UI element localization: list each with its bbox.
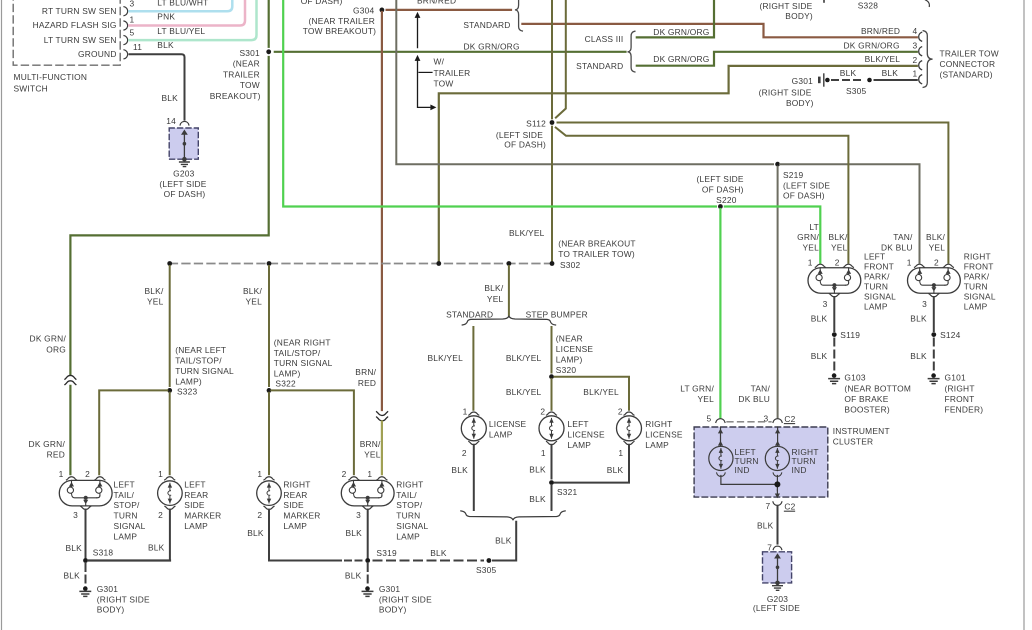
right rear side marker lamp body [257,481,282,506]
svg-text:PARK/: PARK/ [964,271,990,281]
right tail lamp pin 1 number [367,469,372,479]
svg-text:GROUND: GROUND [78,49,117,59]
label BRN/ YEL [360,439,381,460]
svg-text:S323: S323 [177,386,198,396]
svg-text:(STANDARD): (STANDARD) [940,70,993,80]
svg-text:TURN SIGNAL: TURN SIGNAL [274,358,333,368]
svg-text:LAMP: LAMP [114,531,138,541]
svg-text:RED: RED [47,449,65,459]
license lamp pin 2 cavity [462,442,479,459]
svg-text:G301: G301 [792,76,813,86]
svg-text:BODY): BODY) [97,604,125,614]
svg-text:BLK/YEL: BLK/YEL [427,353,463,363]
svg-text:S302: S302 [560,260,581,270]
left front park/turn signal lamp body [808,268,861,294]
svg-text:(NEAR RIGHT: (NEAR RIGHT [274,337,331,347]
right front lamp pin 3 cavity [922,294,939,310]
svg-text:LT BLU/WHT: LT BLU/WHT [157,0,208,7]
svg-text:BREAKOUT): BREAKOUT) [210,91,261,101]
svg-text:FRONT: FRONT [864,261,894,271]
svg-text:BLK: BLK [157,40,174,50]
svg-text:BRN/: BRN/ [355,367,376,377]
splice S124 [931,330,960,340]
right tail/stop/turn signal lamp pin 2 number [342,469,347,479]
label BLK/ YEL (right front pin 2) [926,232,945,252]
svg-text:TOW: TOW [434,79,454,89]
svg-text:BLK/: BLK/ [484,283,503,293]
W/ TRAILER TOW note arrow up to BRN/RED [415,12,421,48]
wire BLK/YEL step bumper branch down to S320 [551,327,553,373]
wire BLK/YEL from S323 left and down to left tail lamp pin 2 [99,390,167,474]
break symbol on BRN wire (RED above / YEL below) [377,412,388,421]
wire label BRN/RED (top, cut) [417,0,456,6]
svg-text:CONNECTOR: CONNECTOR [940,59,996,69]
svg-text:DK GRN/ORG: DK GRN/ORG [464,41,520,51]
svg-text:1: 1 [913,68,918,78]
svg-text:INSTRUMENT: INSTRUMENT [833,426,890,436]
multi-function switch (component box, top cut off) [13,0,120,65]
svg-text:TOW BREAKOUT): TOW BREAKOUT) [303,26,376,36]
left license lamp body [539,416,564,441]
label LICENSE LAMP [489,419,527,439]
label RIGHT TAIL/ STOP/ TURN SIGNAL LAMP [396,479,428,541]
wire DK GRN/ORG vertical from top through S301 down then left [70,0,268,374]
svg-text:DK GRN/ORG: DK GRN/ORG [844,41,900,51]
svg-text:DK GRN/: DK GRN/ [30,334,67,344]
svg-text:BLK: BLK [148,543,165,553]
svg-text:BOOSTER): BOOSTER) [844,405,890,415]
label C2 (bottom) underlined [784,501,795,511]
svg-text:W/: W/ [434,57,445,67]
instrument cluster box [694,427,828,497]
svg-text:FRONT: FRONT [945,394,975,404]
svg-text:S124: S124 [940,330,961,340]
wire BLK dashed from S318 down to ground [64,564,86,584]
frame left border [1,0,3,630]
pin number 3 [130,0,135,8]
svg-text:S112: S112 [526,119,546,129]
left license lamp pin 2 number and cavity [540,406,556,416]
wire label BLK (to pin 1) [882,68,899,78]
label HAZARD FLASH SIG [33,20,117,30]
W/ TRAILER TOW note arrow up to DK GRN/ORG and elbow to BLK/YEL [415,55,437,110]
svg-text:STOP/: STOP/ [114,500,141,510]
wire BLK from left marker pin 2 to S318 run [169,510,171,560]
splice dot on dashed line at S323 branch [167,261,172,266]
svg-text:YEL: YEL [246,297,263,307]
label (LEFT SIDE OF DASH) S220 [697,174,744,205]
left license lamp pin 1 cavity [541,442,557,459]
wire BRN/RED from brace to trailer tow pin 4 [522,24,916,37]
svg-text:SIGNAL: SIGNAL [396,521,428,531]
wire BLK/YEL from dashed line down to options brace [508,266,510,315]
svg-text:BLK: BLK [430,548,447,558]
svg-text:MARKER: MARKER [283,511,320,521]
svg-text:LEFT: LEFT [184,479,205,489]
svg-text:1: 1 [367,469,372,479]
wire label DK GRN/ORG (mid) [464,41,520,51]
svg-text:TURN: TURN [114,511,138,521]
label S328 [858,1,879,11]
svg-text:2: 2 [342,469,347,479]
svg-text:BLK: BLK [162,93,179,103]
wire BLK/YEL from dashed line down to S323 [169,266,171,386]
svg-text:BLK/YEL: BLK/YEL [506,353,542,363]
label BLK/YEL (standard branch) [427,353,463,363]
label BLK/YEL (right license) [583,387,619,397]
svg-text:BLK/: BLK/ [144,286,163,296]
frame right border [1023,0,1025,630]
multi-function switch pin cavity pin 3 [124,7,128,16]
svg-text:STEP BUMPER: STEP BUMPER [526,310,588,320]
svg-text:TOW: TOW [240,80,260,90]
right license lamp body [617,416,642,441]
cluster pin 5 number and cavity [707,414,725,424]
svg-text:BLK: BLK [811,313,828,323]
right rear side marker pin 1 cavity [264,477,274,480]
svg-text:DK BLU: DK BLU [738,394,770,404]
wire label BLK (vertical to G203) [162,93,179,103]
variant merge brace BRN/RED standard [515,0,523,31]
pin number 1 [130,15,135,25]
right rear side marker lamp pin 1 number [257,469,262,479]
svg-text:RIGHT: RIGHT [396,479,423,489]
svg-text:(RIGHT SIDE: (RIGHT SIDE [759,87,812,97]
svg-text:TURN: TURN [964,281,988,291]
ground G203 bottom internal arrow [774,553,781,585]
ground G103 symbol [829,373,839,383]
svg-text:2: 2 [85,469,90,479]
left turn ind bulb [709,446,733,470]
svg-text:STANDARD: STANDARD [576,61,623,71]
svg-text:2: 2 [462,448,467,458]
wire BLK from S305 to trailer tow pin 1 [875,79,917,81]
svg-text:2: 2 [618,406,623,416]
cut wire stub at top edge near S328 [823,0,825,2]
label RT TURN SW SEN [42,6,117,16]
label DK GRN/ ORG (left vertical) [30,334,67,355]
svg-text:S321: S321 [557,487,578,497]
wire BLK/YEL from dashed line down to S322 [268,266,270,386]
svg-text:OF DASH): OF DASH) [164,189,206,199]
svg-text:7: 7 [767,542,772,552]
wire DK GRN/ORG standard branch to trailer tow pin 3 [637,52,917,66]
wire BLK from right front pin 3 to S124 [910,297,934,331]
partial brace cut at top right [926,0,930,6]
label INSTRUMENT CLUSTER [833,426,890,446]
label S112 (LEFT SIDE OF DASH) [496,119,546,150]
svg-text:OF DASH): OF DASH) [504,140,546,150]
label S219 (LEFT SIDE OF DASH) [783,170,830,200]
svg-text:OF BRAKE: OF BRAKE [844,394,888,404]
wire DK GRN/ORG horizontal from S301 to variant brace [275,51,626,53]
svg-text:BLK: BLK [247,528,264,538]
cluster internal bus wire [721,476,778,491]
svg-text:(LEFT SIDE: (LEFT SIDE [753,603,800,613]
wire BLK/YEL from S112 diagonal to left front lamp pin 2 [556,128,849,263]
svg-text:GRN/: GRN/ [797,232,819,242]
wire BLK/YEL from S320 down to left license lamp pin 2 [551,379,553,410]
label CLASS III [585,34,624,44]
svg-text:BLK: BLK [64,570,81,580]
svg-text:BLK: BLK [811,351,828,361]
left turn ind feed wire with arrows [718,427,723,446]
wire TAN/DK BLU from S219 right to right front lamp pin 1 [780,164,920,263]
svg-text:RIGHT: RIGHT [645,419,672,429]
svg-text:LEFT: LEFT [114,479,135,489]
svg-text:CLASS III: CLASS III [585,34,624,44]
svg-text:TURN SIGNAL: TURN SIGNAL [175,366,234,376]
wire BLK dash-dot into S319 [345,560,362,562]
label (NEAR RIGHT TAIL/STOP/ TURN SIGNAL LAMP) S322 [274,337,333,388]
label (RIGHT SIDE BODY) upper [760,1,813,21]
right license lamp pin 1 cavity [618,442,634,459]
left tail lamp pin 2 number [85,469,90,479]
svg-text:RT TURN SW SEN: RT TURN SW SEN [42,6,117,16]
wire LT BLU/WHT from pin 3 [130,0,233,11]
svg-text:G301: G301 [379,584,400,594]
svg-text:OF DASH): OF DASH) [702,184,744,194]
svg-text:YEL: YEL [147,297,164,307]
left tail lamp pin 1 cavity [67,477,77,480]
svg-text:FRONT: FRONT [964,261,994,271]
wire LT GRN/YEL from top down and right to S220 [283,0,716,207]
options split brace STANDARD / STEP BUMPER [462,316,555,325]
svg-text:5: 5 [707,414,712,424]
svg-text:1: 1 [907,258,912,268]
svg-text:(RIGHT SIDE: (RIGHT SIDE [760,1,813,11]
wire label LT BLU/YEL [157,26,205,36]
dashed breakout wire to trailer tow S302 [170,263,552,265]
svg-text:1: 1 [59,469,64,479]
left rear side marker pin 1 cavity [165,477,175,480]
svg-text:BLK/: BLK/ [243,286,262,296]
break symbol on DK GRN wire (ORG above / RED below) [65,375,76,384]
svg-text:LEFT: LEFT [567,419,588,429]
wire BLK from S305 up to license brace [493,522,516,561]
svg-text:S219: S219 [783,170,804,180]
label G203 (LEFT SIDE OF DASH) [159,168,206,199]
wire BLK from right marker pin 2 down and right toward S319 [247,510,341,561]
svg-text:S301: S301 [239,48,260,58]
svg-text:BLK: BLK [529,494,546,504]
label TAN/ DK BLU (cluster pin 3) [738,384,770,404]
right tail lamp pin 2 cavity [349,477,359,480]
svg-text:1: 1 [808,258,813,268]
wire label BRN/RED (right) [861,26,900,36]
label TAN/ DK BLU (right front pin 1) [881,232,913,252]
wire BLK/YEL from S320 right then down to right license lamp pin 2 [555,377,630,410]
variant split brace CLASS III / STANDARD [628,31,635,72]
label G103 (NEAR BOTTOM OF BRAKE BOOSTER) [844,372,911,414]
svg-text:LAMP: LAMP [567,440,591,450]
svg-text:SIGNAL: SIGNAL [964,291,996,301]
label BRN/ RED (lower) [355,367,376,388]
label GROUND [78,49,117,59]
splice S323 [167,388,172,393]
svg-text:2: 2 [913,55,918,65]
svg-text:LAMP): LAMP) [274,369,301,379]
svg-text:BLK/YEL: BLK/YEL [865,54,901,64]
label G301 (RIGHT SIDE BODY) right [379,584,432,614]
wire label LT BLU/WHT [157,0,208,7]
label (NEAR LICENSE LAMP) S320 [556,334,594,375]
splice S321 [549,480,577,497]
right tail lamp pin 1 cavity [377,477,387,480]
svg-text:PARK/: PARK/ [864,271,890,281]
svg-text:BLK: BLK [840,68,857,78]
left tail/stop/turn signal lamp pin 1 number [59,469,64,479]
label BLK/ YEL (left front pin 2) [828,232,847,252]
wire label DK GRN/ORG (to pin 3) [844,41,900,51]
svg-text:BLK: BLK [451,465,468,475]
wire BLK/YEL from S323 down to left rear marker pin 1 [169,393,171,474]
svg-text:BLK: BLK [910,313,927,323]
label S301 (NEAR TRAILER TOW BREAKOUT) [210,48,261,101]
svg-text:TRAILER TOW: TRAILER TOW [940,49,999,59]
svg-text:DK GRN/ORG: DK GRN/ORG [653,27,709,37]
label LEFT REAR SIDE MARKER LAMP [184,479,221,531]
svg-text:BODY): BODY) [786,98,814,108]
svg-text:S305: S305 [476,565,497,575]
svg-text:G101: G101 [945,372,966,382]
svg-text:RED: RED [358,378,376,388]
label C2 (top) underlined [784,414,795,424]
svg-text:LT: LT [809,222,819,232]
label BLK/YEL above S302 [509,228,545,238]
right front park/turn signal lamp pin 1 number and cavity [907,258,925,268]
svg-text:G304: G304 [353,5,374,15]
label G304 (NEAR TRAILER TOW BREAKOUT) [303,5,376,35]
svg-text:TAIL/STOP/: TAIL/STOP/ [175,356,222,366]
label TRAILER TOW CONNECTOR (STANDARD) [940,49,999,80]
wire label BLK/YEL (to pin 2) [865,54,901,64]
W/ TRAILER TOW label with tick [419,57,470,89]
ground G301 (right side body) left symbol [80,586,90,596]
svg-text:S328: S328 [858,1,879,11]
svg-text:5: 5 [130,28,135,38]
right turn ind bulb [765,446,789,470]
label G203 (LEFT SIDE bottom [753,594,800,613]
splice S219 [775,162,780,167]
svg-text:YEL: YEL [929,242,946,252]
svg-text:S319: S319 [376,548,397,558]
svg-text:SWITCH: SWITCH [14,83,48,93]
cluster bus junction dot [774,481,780,487]
svg-text:LAMP: LAMP [283,521,307,531]
svg-text:LAMP): LAMP) [556,354,583,364]
svg-text:3: 3 [913,41,918,51]
wire LT BLU/YEL from pin 5 [130,0,257,40]
svg-text:7: 7 [766,501,771,511]
svg-text:YEL: YEL [487,294,504,304]
label RIGHT FRONT PARK/ TURN SIGNAL LAMP [964,251,996,311]
svg-text:TRAILER: TRAILER [223,69,260,79]
splice S305 (top) [846,78,872,96]
svg-text:TURN: TURN [864,281,888,291]
svg-text:TURN: TURN [396,511,420,521]
left front lamp pin 3 cavity [823,294,840,310]
svg-text:LICENSE: LICENSE [567,429,605,439]
svg-text:LAMP: LAMP [864,301,888,311]
svg-text:ORG: ORG [46,344,66,354]
splice S302 end dot [550,261,555,266]
svg-text:LAMP: LAMP [964,301,988,311]
wire BRN/RED vertical from G304 down [381,12,383,410]
svg-text:TAN/: TAN/ [893,232,913,242]
svg-text:RIGHT: RIGHT [283,479,310,489]
trailer tow connector pin 1 cavity [913,68,922,83]
left rear side marker pin 2 cavity [158,506,175,520]
right turn ind exit cup [773,473,782,476]
ground G301 (right side body) right symbol [362,586,372,596]
wire BLK/YEL vertical from top to S112 and down to S302 [551,0,553,261]
pin number 5 [130,28,135,38]
svg-text:BLK: BLK [607,465,624,475]
svg-text:TO TRAILER TOW): TO TRAILER TOW) [558,249,635,259]
label RIGHT LICENSE LAMP [645,419,683,450]
wire TAN/DK BLU from S219 down to cluster pin 3 [777,167,779,418]
wire BRN/RED from G304 right to merge brace [387,9,511,11]
svg-text:YEL: YEL [803,242,820,252]
wire DK GRN/RED continuation to left tail lamp pin 1 [69,386,71,474]
wire BLK from right license pin 1 down and left to S321 [555,445,630,483]
wire BLK dashed from S119 to ground [811,339,835,372]
label LEFT FRONT PARK/ TURN SIGNAL LAMP [864,251,896,311]
left rear side marker lamp pin 1 number [158,469,163,479]
label STEP BUMPER [526,310,588,320]
svg-text:1: 1 [463,406,468,416]
wire BLK from license lamp pin 2 to brace [451,445,473,510]
svg-text:BLK: BLK [346,528,363,538]
label partial OF DASH) cut at top [301,0,343,6]
svg-text:1: 1 [541,448,546,458]
svg-text:1: 1 [257,469,262,479]
svg-text:BLK: BLK [66,543,83,553]
svg-text:LAMP: LAMP [645,440,669,450]
splice S305 [476,558,497,575]
trailer tow connector pin 2 cavity [913,55,922,70]
connector C2 dashed edge [727,421,771,423]
label G101 (RIGHT FRONT FENDER) [945,372,984,414]
cluster pin 3 number and cavity [764,414,783,424]
svg-text:(NEAR LEFT: (NEAR LEFT [175,345,226,355]
svg-text:(NEAR TRAILER: (NEAR TRAILER [309,16,375,26]
pin number 11 [133,42,142,52]
splice S301 [266,49,271,54]
svg-text:(NEAR BREAKOUT: (NEAR BREAKOUT [558,238,636,248]
cluster pin 7 cup and number [766,501,782,511]
svg-text:LT GRN/: LT GRN/ [680,384,714,394]
svg-text:1: 1 [158,469,163,479]
left tail lamp pin 3 cavity [73,506,91,520]
svg-text:OF DASH): OF DASH) [783,190,825,200]
wire label BLK (pin 11) [157,40,174,50]
right front park/turn signal lamp body [908,268,961,294]
svg-text:BRN/RED: BRN/RED [417,0,456,6]
label STANDARD (brn variant) [463,20,510,30]
right turn ind feed wire with arrows [775,427,780,446]
ground G203 symbol bars [180,162,190,167]
svg-text:G103: G103 [844,372,865,382]
left rear side marker lamp body [158,481,183,506]
right tail/stop/turn signal lamp body [341,480,394,506]
svg-text:BLK/: BLK/ [926,232,945,242]
wire label BLK (marker drop) [148,543,165,553]
splice dot on dashed line at license branch [507,261,512,266]
svg-text:LICENSE: LICENSE [489,419,527,429]
multi-function switch pin cavity pin 11 [124,50,128,59]
